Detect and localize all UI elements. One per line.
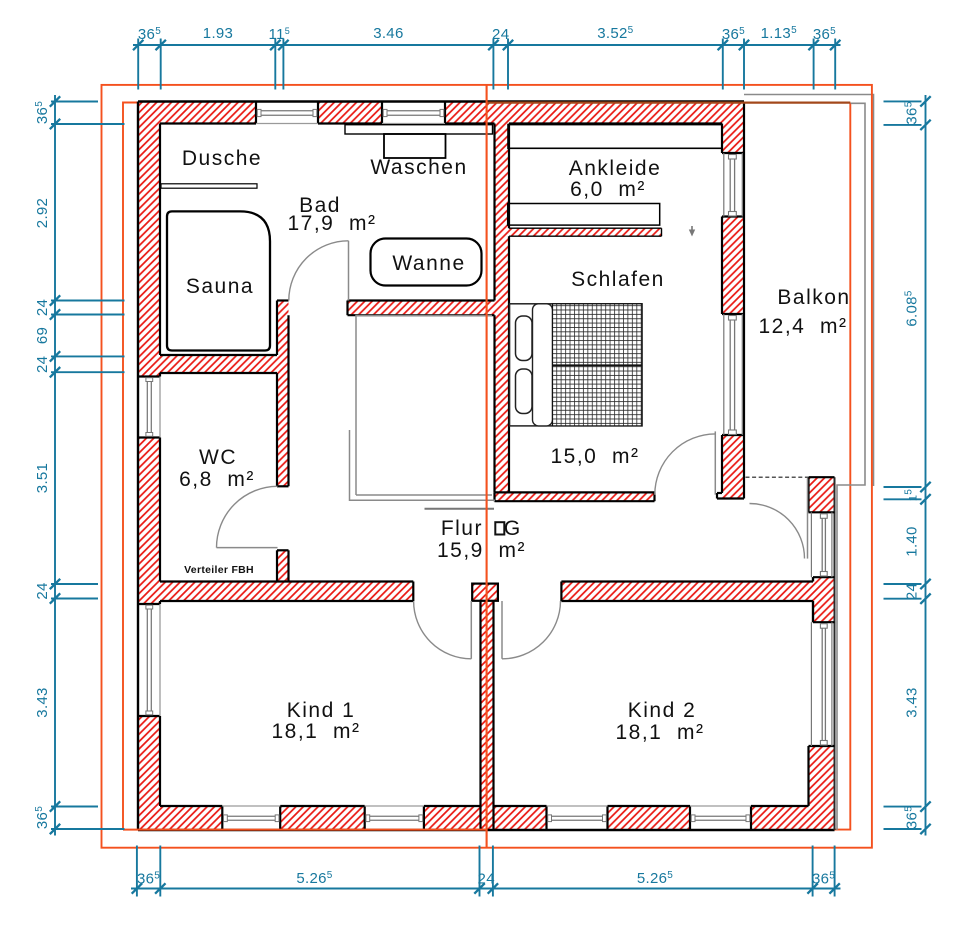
window right Schlafen xyxy=(723,314,725,435)
top wall outer edge xyxy=(138,100,744,102)
wall Ankleide south edges xyxy=(509,227,662,229)
left wall window jambs xyxy=(138,375,160,377)
window top wall Dusche xyxy=(256,123,318,125)
stairwell opening rail xyxy=(356,316,492,496)
svg-text:G: G xyxy=(504,517,522,540)
wall Schlafen south edges xyxy=(495,491,655,493)
dimension line bottom xyxy=(131,888,841,890)
window right Kind2 a xyxy=(810,512,812,577)
svg-text:24: 24 xyxy=(904,583,921,600)
shelf Dusche xyxy=(161,184,257,188)
svg-text:1.40: 1.40 xyxy=(904,526,921,556)
svg-text:69: 69 xyxy=(34,327,51,344)
door Kind2 arc xyxy=(502,601,561,659)
svg-text:12,4 m²: 12,4 m² xyxy=(758,315,847,338)
interior wall WC east (hatch) xyxy=(277,301,289,487)
window bottom Kind1 a xyxy=(222,805,280,807)
stair landing edge xyxy=(425,508,495,510)
exterior wall right lower (hatch) xyxy=(809,477,835,512)
window right Ankleide xyxy=(723,153,725,217)
svg-text:Verteiler FBH: Verteiler FBH xyxy=(184,564,254,576)
dimension witness lines bottom xyxy=(136,846,138,897)
right upper wall inner edges xyxy=(721,124,723,154)
right upper wall outer edge xyxy=(743,102,745,499)
wall WC east edges xyxy=(277,299,289,301)
svg-text:3.43: 3.43 xyxy=(904,687,921,717)
balcony railing inner gray xyxy=(837,103,865,830)
svg-text:2.92: 2.92 xyxy=(34,198,51,228)
svg-text:6,8 m²: 6,8 m² xyxy=(179,468,255,491)
svg-text:Dusche: Dusche xyxy=(182,147,262,170)
wall WC north edges xyxy=(160,354,277,356)
door Kind1 leaf xyxy=(470,601,472,659)
svg-text:Ankleide: Ankleide xyxy=(569,157,662,180)
cabinet Ankleide xyxy=(508,204,660,226)
wall Kind2 north edges xyxy=(561,580,813,582)
door Flur-balcony leaf xyxy=(807,478,809,558)
svg-text:24: 24 xyxy=(478,871,495,888)
right upper wall window jambs xyxy=(722,152,744,154)
exterior wall bottom (hatch) xyxy=(138,806,222,830)
top wall inner edges xyxy=(160,122,256,124)
interior wall Schlafen south (hatch) xyxy=(495,492,655,501)
interior wall WC north (hatch) xyxy=(160,355,289,373)
svg-text:15,0 m²: 15,0 m² xyxy=(550,445,639,468)
window left wall Kind1 xyxy=(159,604,161,716)
interior wall spine upper (hatch) xyxy=(495,124,510,493)
svg-text:6,0 m²: 6,0 m² xyxy=(570,178,646,201)
svg-text:Sauna: Sauna xyxy=(186,275,254,298)
window left wall WC xyxy=(159,377,161,438)
door Bad arc xyxy=(289,241,349,301)
bottom wall inner edges xyxy=(160,805,222,807)
door WC leaf xyxy=(217,547,278,549)
window right Kind2 b xyxy=(810,622,812,746)
bathtub Wanne xyxy=(371,239,482,286)
inner orange frame bottom overlay segment xyxy=(123,829,487,831)
svg-text:1.93: 1.93 xyxy=(203,25,233,42)
door WC arc xyxy=(217,486,278,547)
bottom wall window jambs xyxy=(221,806,223,830)
window bottom Kind2 a xyxy=(547,805,608,807)
svg-text:24: 24 xyxy=(34,582,51,599)
bed frame xyxy=(510,304,643,426)
washbasin Waschen xyxy=(384,134,446,158)
orange section line xyxy=(486,84,488,848)
svg-text:Kind 1: Kind 1 xyxy=(287,699,356,722)
dimension ticks left xyxy=(50,96,60,106)
svg-text:24: 24 xyxy=(34,299,51,316)
dimension ticks bottom xyxy=(132,883,142,893)
bed pillow 2 xyxy=(516,369,533,414)
svg-text:24: 24 xyxy=(34,356,51,373)
stairwell outer rail xyxy=(350,430,496,500)
bed mattress divider xyxy=(553,364,643,366)
svg-text:Flur: Flur xyxy=(441,517,483,540)
svg-text:18,1 m²: 18,1 m² xyxy=(615,721,704,744)
bed headboard band xyxy=(533,304,553,426)
door Schlafen arc xyxy=(655,434,716,495)
svg-text:3.46: 3.46 xyxy=(373,25,403,42)
window bottom Kind2 b xyxy=(690,805,751,807)
exterior wall left (hatch) xyxy=(138,102,160,377)
svg-text:Kind 2: Kind 2 xyxy=(628,699,697,722)
spine upper edges xyxy=(493,124,495,301)
interior wall Ankleide south (hatch) xyxy=(509,228,662,236)
wall Kind1 north edges xyxy=(160,580,413,582)
svg-text:Balkon: Balkon xyxy=(777,286,850,309)
exterior wall top (hatch) xyxy=(138,102,256,124)
svg-text:3.51: 3.51 xyxy=(34,463,51,493)
svg-text:17,9 m²: 17,9 m² xyxy=(287,212,376,235)
door Kind1 arc xyxy=(414,601,472,659)
inner orange frame left/bottom xyxy=(123,103,138,830)
right upper wall pier bottom cap xyxy=(717,492,722,494)
dimension witness lines left xyxy=(51,101,98,103)
counter Waschen xyxy=(345,125,493,134)
svg-text:3.43: 3.43 xyxy=(34,687,51,717)
balcony bottom dashed boundary xyxy=(746,476,809,478)
left wall inner edges xyxy=(159,124,161,356)
bed pillow 1 xyxy=(516,316,533,361)
bottom wall outer edge xyxy=(138,829,835,831)
svg-text:24: 24 xyxy=(492,26,509,43)
interior wall Kind2 north (hatch) xyxy=(561,582,813,602)
right lower wall block edges xyxy=(809,476,835,478)
interior wall stair north (hatch) xyxy=(348,301,510,316)
bed mattress grid xyxy=(553,304,643,426)
top wall window jambs xyxy=(255,102,257,124)
dimension ticks right xyxy=(920,96,930,106)
inner orange frame right xyxy=(835,103,851,830)
right lower wall outer edge xyxy=(834,477,836,830)
svg-text:Schlafen: Schlafen xyxy=(571,268,665,291)
svg-text:15,9 m²: 15,9 m² xyxy=(437,539,526,562)
dimension line top xyxy=(133,44,841,46)
sauna xyxy=(167,211,270,350)
arrow balcony entrance xyxy=(691,226,693,231)
interior wall spine lower (hatch) xyxy=(472,584,498,601)
door Schlafen leaf xyxy=(714,431,716,494)
svg-text:Waschen: Waschen xyxy=(370,156,467,179)
svg-text:18,1 m²: 18,1 m² xyxy=(271,720,360,743)
dimension line left xyxy=(54,95,56,836)
door Bad leaf xyxy=(348,241,350,301)
spine lower edges xyxy=(472,584,498,601)
wardrobe Ankleide xyxy=(508,125,722,149)
interior wall Kind1 north (hatch) xyxy=(138,582,413,602)
dimension witness lines right xyxy=(884,100,922,102)
left wall outer edge xyxy=(137,102,139,831)
svg-text:Wanne: Wanne xyxy=(392,252,465,275)
svg-text:WC: WC xyxy=(199,446,237,469)
inner orange frame top overlay segment xyxy=(487,101,851,103)
balcony railing outer gray xyxy=(744,95,874,487)
door Flur-balcony arc xyxy=(750,504,805,559)
window top wall Waschen xyxy=(382,123,445,125)
window bottom Kind1 b xyxy=(365,805,424,807)
wall stair north edges xyxy=(348,299,495,301)
dimension witness lines top xyxy=(137,39,139,90)
door Kind2 leaf xyxy=(501,601,503,659)
dimension ticks top xyxy=(133,40,143,50)
exterior wall right upper (hatch) xyxy=(722,102,744,154)
outer orange frame xyxy=(102,85,872,848)
dimension line right xyxy=(925,95,927,836)
